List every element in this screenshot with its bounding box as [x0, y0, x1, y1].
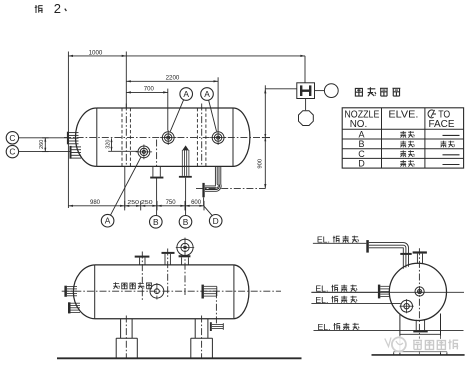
svg-text:A: A	[358, 130, 364, 140]
svg-text:250: 250	[127, 200, 139, 206]
svg-text:700: 700	[144, 87, 155, 93]
svg-text:ELVE.: ELVE.	[388, 110, 418, 121]
svg-text:260: 260	[39, 140, 45, 149]
svg-text:B: B	[183, 217, 189, 227]
svg-text:A: A	[183, 89, 189, 99]
svg-text:900: 900	[258, 159, 264, 169]
svg-text:320: 320	[106, 139, 112, 148]
svg-text:2200: 2200	[166, 75, 180, 82]
svg-text:1000: 1000	[89, 49, 103, 56]
svg-text:980: 980	[90, 200, 101, 206]
svg-text:D: D	[213, 216, 219, 226]
svg-text:EL.: EL.	[317, 235, 330, 245]
svg-text:250: 250	[141, 200, 153, 206]
svg-text:C: C	[358, 149, 365, 159]
svg-text:C: C	[9, 133, 15, 143]
svg-text:EL.: EL.	[315, 284, 328, 294]
svg-text:750: 750	[166, 200, 177, 206]
svg-text:600: 600	[191, 200, 202, 206]
svg-text:A: A	[204, 89, 210, 99]
svg-text:D: D	[358, 159, 365, 169]
svg-text:2: 2	[54, 1, 61, 16]
svg-text:C: C	[9, 147, 15, 157]
svg-text:EL.: EL.	[318, 322, 331, 332]
svg-text:B: B	[153, 217, 159, 227]
svg-text:EL.: EL.	[315, 295, 328, 305]
svg-text:FACE: FACE	[429, 119, 455, 130]
svg-text:NO.: NO.	[350, 119, 368, 130]
svg-text:A: A	[105, 216, 111, 226]
svg-text:B: B	[358, 139, 364, 149]
